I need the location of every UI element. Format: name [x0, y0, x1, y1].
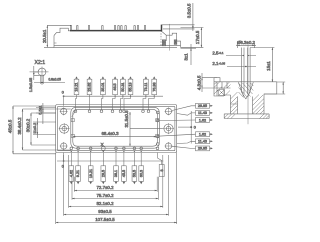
pin position label 46.5 (top) — [113, 76, 118, 110]
pin position label 60.3 (bottom) — [139, 153, 144, 185]
datum 0 top-left with rail — [62, 91, 163, 106]
dimension 38.4±0.2 (left) — [22, 109, 71, 150]
dimension 82.1±0.2 (bottom) — [69, 206, 163, 208]
right leader routing line — [190, 111, 192, 144]
svg-text:38.4±0.2: 38.4±0.2 — [17, 117, 22, 135]
svg-text:5.5±1: 5.5±1 — [38, 105, 42, 114]
svg-text:45±0.5: 45±0.5 — [8, 119, 13, 133]
dimension 5.5±1 (left) — [36, 103, 56, 124]
svg-text:45.5: 45.5 — [122, 170, 126, 177]
plan view outer body — [56, 105, 177, 153]
dimension 3.5±0.5 — [162, 3, 195, 31]
svg-text:23.62: 23.62 — [88, 82, 92, 91]
svg-text:31.5±0.5: 31.5±0.5 — [124, 110, 129, 128]
pin position label 9.21 (bottom) — [76, 153, 81, 185]
dimension 1.5±0.05 — [33, 66, 39, 80]
svg-text:3±1: 3±1 — [184, 53, 189, 61]
svg-text:68.4±0.3: 68.4±0.3 — [101, 131, 119, 136]
dimension 4.3±0.5 — [201, 73, 217, 92]
svg-text:46.5: 46.5 — [113, 83, 117, 90]
svg-text:Ø6.3±0.2: Ø6.3±0.2 — [237, 40, 256, 45]
pin position label 11.43 (right) — [177, 139, 213, 144]
pin position label 26.95 (right) — [172, 103, 213, 110]
mounting hole middle-left — [59, 123, 70, 134]
side view body — [54, 28, 177, 47]
mounting hole top-left — [60, 107, 68, 115]
svg-text:72.7±0.2: 72.7±0.2 — [96, 185, 114, 190]
pin position label 76.98 (top) — [149, 76, 157, 110]
dimension 0.8±0.05 — [34, 82, 65, 84]
side view right-end section — [161, 24, 181, 51]
svg-text:28.5: 28.5 — [101, 170, 105, 177]
svg-text:53.5: 53.5 — [133, 170, 137, 177]
lid latch marks left edge — [71, 119, 74, 138]
svg-text:35.01: 35.01 — [101, 82, 105, 91]
pin position label 8 (bottom right short box) — [158, 153, 165, 177]
pin position label 53.5 (bottom) — [132, 153, 137, 185]
svg-text:107.5±0.5: 107.5±0.5 — [95, 217, 115, 222]
svg-text:76.98: 76.98 — [152, 82, 156, 91]
svg-text:X2:1: X2:1 — [35, 60, 46, 66]
bottom dimension extension lines — [56, 153, 177, 225]
svg-text:82.1±0.2: 82.1±0.2 — [96, 201, 114, 206]
svg-text:1.62: 1.62 — [199, 133, 206, 137]
mounting hole top-right — [165, 107, 173, 115]
svg-text:9.21: 9.21 — [76, 170, 80, 177]
svg-text:4.3±0.5: 4.3±0.5 — [196, 75, 201, 90]
dimension 2.5-0.1 — [226, 55, 256, 57]
terminal detail pin — [238, 45, 253, 124]
svg-text:30±0.2: 30±0.2 — [26, 118, 31, 132]
pin circles bottom row — [70, 146, 159, 150]
pin position label 50.31 (top) — [121, 76, 126, 110]
pin position label 23.62 (top) — [87, 76, 92, 110]
svg-text:1.5±0.05: 1.5±0.05 — [29, 78, 33, 92]
svg-text:0: 0 — [62, 91, 64, 95]
pin position label 28.5 (bottom) — [101, 153, 106, 185]
bottom edge leader dots — [71, 151, 142, 152]
dimension 20.5±1 — [44, 25, 71, 47]
svg-text:2.1-0.05: 2.1-0.05 — [212, 61, 225, 66]
mounting hole middle-right — [163, 123, 174, 134]
dimension 93±0.5 (bottom) — [64, 214, 169, 216]
dimension 2.1-0.05 — [227, 66, 256, 68]
dimension Ø6.3±0.2 — [236, 43, 256, 48]
dimension 45±0.5 (left) — [12, 106, 55, 154]
pin position label 1.62 (right) — [158, 132, 213, 137]
svg-text:38.1: 38.1 — [114, 170, 118, 177]
side view pins — [70, 26, 145, 31]
svg-text:11.43: 11.43 — [198, 140, 207, 144]
svg-text:0: 0 — [194, 126, 196, 130]
dimension 68.4±0.3 — [73, 136, 157, 138]
unlabeled vertical dim — [264, 82, 285, 94]
svg-text:73.11: 73.11 — [144, 83, 148, 92]
svg-text:3.5±0.5: 3.5±0.5 — [187, 3, 192, 18]
svg-text:11±0.2: 11±0.2 — [33, 123, 37, 134]
dimension 3±1 — [181, 44, 197, 65]
svg-text:75.7±0.2: 75.7±0.2 — [96, 193, 114, 198]
pin circles right column — [157, 111, 160, 145]
top rail leader dots — [114, 96, 154, 97]
dimension 107.5±0.5 (bottom) — [56, 222, 177, 224]
pin position label 1.62 (right) — [158, 118, 213, 123]
terminal housing section — [214, 78, 277, 119]
svg-text:15±1: 15±1 — [266, 61, 271, 71]
dimension 15±1 — [250, 48, 274, 83]
plan view lid — [71, 107, 160, 148]
pin position label 55.19 (top) — [124, 76, 133, 110]
X2:1 detail pin tip — [30, 67, 49, 86]
svg-text:50.31: 50.31 — [121, 82, 125, 91]
svg-text:0.8±0.05: 0.8±0.05 — [49, 77, 62, 81]
pin position label 38.1 (bottom) — [114, 153, 119, 185]
svg-text:11.43: 11.43 — [198, 111, 207, 115]
dimension 31.5±0.5 — [129, 112, 163, 146]
svg-text:60.3: 60.3 — [139, 170, 143, 177]
dimension 75.7±0.2 (bottom) — [72, 198, 158, 200]
svg-text:26.95: 26.95 — [198, 147, 207, 151]
dimension 17±0.5 — [181, 28, 204, 48]
dimension 11±0.2 (left) — [33, 118, 56, 138]
svg-text:2.5-0.1: 2.5-0.1 — [212, 51, 223, 56]
svg-text:17±0.5: 17±0.5 — [195, 30, 200, 44]
svg-text:19.21: 19.21 — [75, 82, 79, 91]
dimension 72.7±0.2 (bottom) — [74, 190, 157, 192]
pin position label 19.21 (top) — [74, 76, 79, 110]
svg-text:1.62: 1.62 — [199, 118, 206, 122]
mounting hole bottom-left — [60, 142, 68, 150]
pin position label 35.01 (top) — [101, 76, 106, 110]
dimension 30±0.2 (left) — [30, 113, 55, 145]
pin position label 45.5 (bottom) — [122, 153, 127, 185]
lid latch marks right edge — [156, 119, 159, 138]
datum 0 bottom-left with rail — [57, 153, 163, 169]
svg-text:93±0.5: 93±0.5 — [98, 209, 112, 214]
datum 0 right — [178, 126, 196, 130]
svg-text:20.5±1: 20.5±1 — [42, 29, 47, 43]
pin circles top row — [74, 110, 150, 113]
pin position label 73.11 (top) — [143, 76, 148, 110]
pin position label 26.95 (right) — [172, 146, 213, 151]
svg-text:8: 8 — [160, 169, 164, 171]
mounting hole bottom-right — [165, 142, 173, 150]
svg-text:55.19: 55.19 — [129, 82, 133, 91]
svg-text:4.62: 4.62 — [69, 170, 73, 177]
svg-text:19.21: 19.21 — [89, 169, 93, 178]
pin position label 19.21 (bottom) — [88, 153, 93, 185]
svg-text:26.95: 26.95 — [198, 104, 207, 108]
pin position label 11.43 (right) — [177, 111, 213, 116]
pin position label 4.62 (bottom) — [69, 153, 74, 185]
